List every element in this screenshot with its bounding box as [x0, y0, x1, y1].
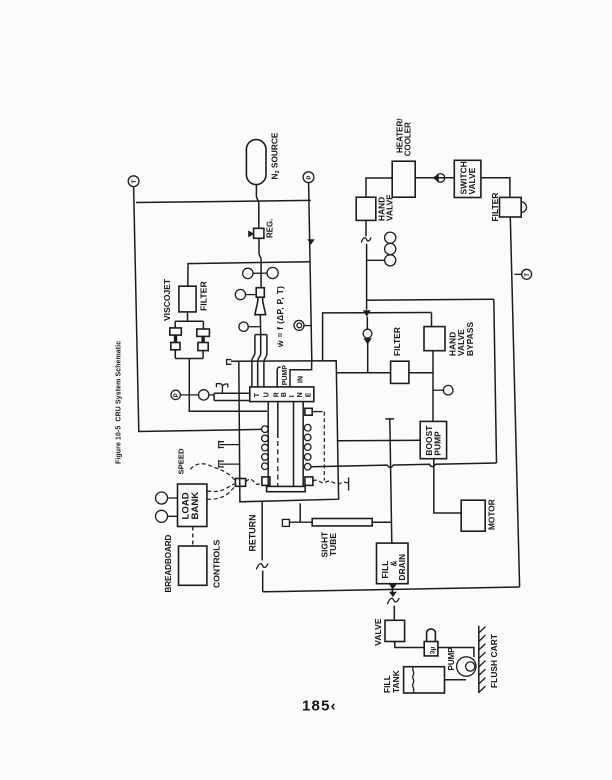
svg-text:FILTER: FILTER	[392, 327, 402, 356]
fill & drain box	[377, 543, 409, 584]
viscojet orifice pair right	[197, 329, 210, 351]
wire: viscojet branch rejoin, down to P2 junction, to turbine	[175, 350, 267, 411]
svg-text:BYPASS: BYPASS	[465, 322, 475, 356]
shaft fitting square bottom left	[262, 477, 270, 486]
speed pickup box	[235, 479, 245, 487]
flush pump	[457, 657, 476, 676]
wire: REG down with crossover jog to flow section	[259, 238, 261, 287]
svg-text:3µ: 3µ	[429, 647, 436, 655]
wire: manifold header to viscojet branch	[188, 262, 311, 286]
N2 source tank	[246, 140, 266, 185]
return line with break	[261, 501, 264, 592]
svg-text:Figure 10-5 CRU System Schema: Figure 10-5 CRU System Schematic	[116, 341, 123, 464]
right filter F3	[500, 197, 527, 217]
fill tank	[404, 667, 445, 693]
main bottom return line	[263, 587, 520, 592]
viscojet filter box	[179, 286, 196, 312]
wire: check valve to filter suction line	[366, 317, 368, 373]
svg-text:COOLER: COOLER	[403, 122, 412, 156]
load bank circles	[156, 492, 168, 504]
svg-text:E: E	[305, 392, 312, 397]
svg-text:ẇ = f (ΔP, P, T): ẇ = f (ΔP, P, T)	[275, 286, 285, 348]
wire: top header T1 to P1	[136, 200, 311, 202]
mid filter F2	[391, 361, 409, 383]
svg-text:REG.: REG.	[266, 219, 275, 238]
svg-text:VALVE: VALVE	[373, 618, 383, 646]
pump inlet duct	[277, 361, 312, 387]
sensor circle T2	[514, 269, 531, 279]
sensor circle (boost)	[433, 385, 453, 395]
svg-text:N: N	[297, 392, 304, 397]
shaft fitting square top right	[305, 408, 312, 415]
shaft fitting square bottom right	[305, 477, 313, 486]
svg-text:TUBE: TUBE	[328, 533, 338, 556]
svg-text:FILTER: FILTER	[490, 192, 500, 221]
svg-text:T: T	[132, 180, 138, 184]
terminal E2	[219, 460, 224, 468]
flush cart ground wall	[479, 626, 486, 693]
inner loop box bottom edge with hops	[311, 463, 496, 467]
dashed link to controls	[192, 527, 194, 547]
wire: boost pump to motor	[434, 459, 461, 513]
turbine box	[250, 387, 314, 402]
wire: housing to boost pump	[337, 439, 420, 441]
load bank box	[178, 484, 207, 527]
turbine feed bundle with crossover jogs	[252, 335, 267, 387]
switch valve box	[454, 160, 481, 197]
svg-text:T: T	[254, 392, 261, 397]
svg-text:VALVE: VALVE	[467, 167, 477, 194]
svg-text:BANK: BANK	[190, 492, 201, 520]
wire: 3u filter to pump	[438, 648, 474, 658]
sensor circle Q	[294, 320, 311, 330]
check valve (heater)	[432, 174, 445, 183]
valve box (flush)	[385, 620, 405, 641]
wire: valve to 3u filter	[395, 642, 424, 648]
sensor circle T1 (top left)	[128, 176, 139, 187]
fill/drain flow arrows	[389, 584, 397, 589]
svg-text:185‹: 185‹	[302, 698, 337, 715]
break squiggle on hand valve line	[361, 237, 371, 242]
turbine letters	[254, 392, 312, 397]
wire: switch valve to right filter	[481, 178, 510, 198]
flow venturi w/ actuator	[235, 288, 265, 315]
hand valve line from header: break squiggle	[365, 220, 368, 309]
wire: viscojet branch split	[175, 312, 203, 329]
viscojet orifice pair left	[170, 328, 182, 350]
hand valve bypass box	[424, 327, 445, 351]
svg-text:MOTOR: MOTOR	[486, 499, 496, 530]
dashed speed leads	[190, 464, 235, 481]
break squiggle below	[387, 598, 399, 604]
3u filter	[424, 629, 438, 656]
flow arrow on P line	[307, 239, 314, 244]
svg-text:R: R	[273, 392, 280, 397]
svg-text:CONTROLS: CONTROLS	[211, 540, 221, 588]
wire: tank to REG with crossover jog	[256, 185, 258, 229]
gauge pair on flow line	[243, 267, 279, 278]
sensor circle dP tap	[239, 322, 261, 331]
svg-text:RETURN: RETURN	[247, 515, 257, 552]
svg-text:DRAIN: DRAIN	[397, 554, 407, 581]
wire: P2 stem	[180, 394, 198, 396]
turbine housing box	[231, 361, 339, 502]
sensor circle P2	[171, 390, 180, 399]
breadboard controls box	[179, 546, 207, 585]
turbine inlet pipe w/ hook	[209, 384, 250, 401]
svg-text:PUMP: PUMP	[447, 647, 456, 671]
svg-text:IN: IN	[297, 376, 304, 383]
wire: tank to pump	[445, 679, 467, 681]
svg-text:I: I	[289, 395, 296, 397]
junction arrow (pump discharge)	[363, 310, 371, 317]
turbine shaft columns	[268, 402, 303, 487]
svg-text:PUMP: PUMP	[433, 431, 443, 456]
svg-text:U: U	[263, 392, 270, 397]
svg-text:P: P	[307, 176, 313, 180]
inner loop box top edge	[366, 298, 494, 301]
sensor circle (turbine tap)	[199, 390, 209, 400]
stub + dashed instrumentation drop	[312, 411, 322, 413]
regulator REG	[248, 228, 264, 238]
svg-text:B: B	[281, 392, 288, 397]
check valve (to filter)	[363, 329, 372, 344]
vent tee and fill/drain drop line	[385, 419, 394, 592]
svg-text:FLUSH CART: FLUSH CART	[489, 634, 499, 688]
sensor circle P1 (top)	[303, 172, 314, 183]
svg-text:TANK: TANK	[391, 670, 401, 693]
boost pump box	[420, 421, 446, 458]
motor box	[461, 500, 485, 531]
wire: venturi to turbine feed	[259, 315, 261, 335]
wire: P1 line down to pump inlet	[309, 183, 312, 361]
wire: pump discharge riser and header	[323, 313, 432, 361]
break squiggle on return	[256, 563, 268, 569]
wire: filter suction line	[337, 372, 433, 374]
wire: bypass vertical	[432, 313, 434, 422]
turbine base plate	[267, 486, 306, 491]
left bearing circles	[262, 426, 269, 470]
hand valve HV1	[356, 197, 376, 220]
terminal at housing stub	[227, 359, 232, 365]
wire: to valve	[393, 606, 395, 621]
sight tube assembly	[282, 503, 391, 526]
svg-text:T: T	[525, 273, 531, 277]
svg-text:VISCOJET: VISCOJET	[162, 278, 172, 321]
svg-text:PUMP: PUMP	[282, 365, 289, 386]
gauge bottle stack	[367, 232, 396, 266]
svg-text:FILTER: FILTER	[198, 281, 208, 311]
wire: T1 down-left long line to turbine bearing	[134, 187, 262, 432]
svg-text:BREADBOARD: BREADBOARD	[164, 535, 173, 593]
svg-text:P: P	[174, 393, 180, 397]
svg-text:SPEED: SPEED	[176, 448, 185, 475]
right bearing circles	[304, 424, 311, 470]
heater/cooler box	[392, 161, 415, 197]
wire: hand valve top loop	[366, 178, 392, 197]
wire: right return line down	[510, 217, 519, 587]
dashed lead from bottom right square	[313, 480, 349, 484]
terminal E1	[219, 441, 224, 449]
inner loop box right edge	[494, 299, 497, 463]
wire: heater to switch valve	[415, 177, 454, 179]
